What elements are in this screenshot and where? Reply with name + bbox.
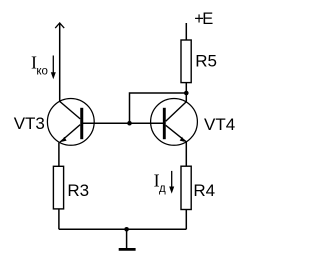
svg-text:+E: +E: [194, 10, 213, 28]
svg-text:ко: ко: [36, 66, 48, 78]
svg-text:R3: R3: [67, 181, 89, 200]
svg-text:R5: R5: [195, 52, 217, 71]
svg-text:д: д: [159, 183, 166, 195]
svg-text:R4: R4: [193, 181, 215, 200]
svg-text:VT3: VT3: [14, 114, 45, 133]
svg-text:VT4: VT4: [204, 115, 235, 134]
